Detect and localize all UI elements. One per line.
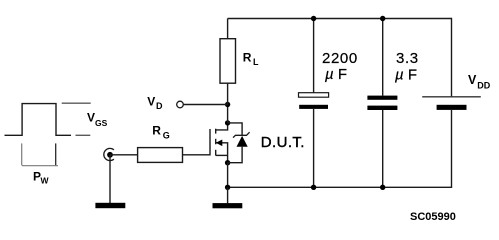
- svg-text:D.U.T.: D.U.T.: [261, 134, 305, 151]
- capacitor C2 bottom wire: [382, 110, 384, 187]
- battery VDD long plate: [422, 96, 481, 98]
- input connector (coax): [104, 148, 114, 160]
- wire connector down to ground: [109, 155, 111, 203]
- wire to main ground: [227, 187, 229, 203]
- node C2 bottom dot: [380, 185, 385, 190]
- battery VDD bottom wire: [451, 110, 453, 188]
- svg-text:G: G: [163, 131, 170, 141]
- channel dashes: [215, 129, 217, 134]
- svg-text:R: R: [243, 50, 252, 64]
- gate electrode: [209, 129, 211, 156]
- svg-text:SC05990: SC05990: [410, 211, 456, 223]
- svg-text:2200: 2200: [322, 50, 358, 67]
- transistor Q1 D.U.T. (MOSFET): [210, 123, 228, 163]
- node bottom-left dot: [225, 185, 230, 190]
- svg-text:W: W: [41, 176, 50, 186]
- node VD dot: [225, 102, 230, 107]
- bulk line: [216, 143, 228, 163]
- capacitor C2 3.3uF top wire: [382, 19, 384, 96]
- node source dot: [225, 160, 230, 165]
- drain stub: [216, 123, 228, 130]
- resistor RG: [138, 148, 183, 163]
- capacitor C1 bottom wire: [313, 109, 315, 187]
- capacitor C2 plate top: [367, 96, 397, 100]
- svg-text:D: D: [156, 101, 163, 111]
- VD terminal circle: [177, 101, 184, 108]
- source stub: [216, 154, 228, 156]
- battery VDD top wire: [451, 18, 453, 97]
- wire source down to bottom rail: [227, 163, 229, 188]
- node C1 bottom dot: [311, 185, 316, 190]
- label RL: [243, 50, 259, 67]
- label RG: [152, 123, 170, 140]
- svg-text:DD: DD: [477, 81, 490, 91]
- node drain dot: [225, 120, 230, 125]
- svg-text:µ F: µ F: [325, 66, 347, 83]
- svg-text:V: V: [87, 111, 95, 125]
- label VD: [147, 95, 163, 111]
- svg-text:R: R: [152, 123, 161, 137]
- wire VD node to RL: [227, 83, 229, 104]
- body diode triangle: [237, 136, 248, 147]
- PW width bracket: [22, 143, 58, 165]
- svg-text:V: V: [147, 95, 155, 109]
- bulk arrow: [216, 140, 223, 147]
- wire VD terminal to node: [183, 104, 227, 106]
- battery VDD short plate: [437, 105, 467, 110]
- label PW: [33, 169, 50, 185]
- body diode branch: [228, 123, 243, 163]
- body diode cathode bar: [233, 132, 250, 137]
- VGS base level dash: [76, 134, 91, 136]
- capacitor C1 2200uF top wire: [313, 19, 315, 93]
- svg-text:µ F: µ F: [395, 67, 417, 84]
- svg-text:L: L: [253, 57, 259, 67]
- VGS top level dash: [62, 102, 91, 104]
- top rail: [228, 18, 452, 20]
- resistor RL: [220, 39, 236, 83]
- wire RG to gate: [183, 154, 211, 156]
- bottom rail: [228, 186, 452, 188]
- node C2 top dot: [380, 16, 385, 21]
- ground (main): [213, 203, 243, 208]
- node C1 top dot: [311, 16, 316, 21]
- pulse waveform VGS: [5, 104, 72, 136]
- capacitor C1 negative plate: [299, 105, 328, 109]
- wire drain up to VD node: [227, 105, 229, 123]
- svg-text:GS: GS: [95, 118, 108, 128]
- ground (input): [95, 203, 125, 208]
- svg-text:V: V: [468, 73, 477, 87]
- capacitor C2 plate bottom: [367, 106, 397, 110]
- label VGS: [87, 111, 108, 129]
- wire connector to RG: [110, 154, 138, 156]
- label 3.3 uF: [395, 50, 419, 83]
- svg-text:3.3: 3.3: [396, 50, 419, 67]
- label 2200 uF: [322, 50, 358, 83]
- label VDD: [468, 73, 491, 91]
- wire RL to top rail: [227, 19, 229, 39]
- capacitor C1 positive plate: [299, 93, 329, 98]
